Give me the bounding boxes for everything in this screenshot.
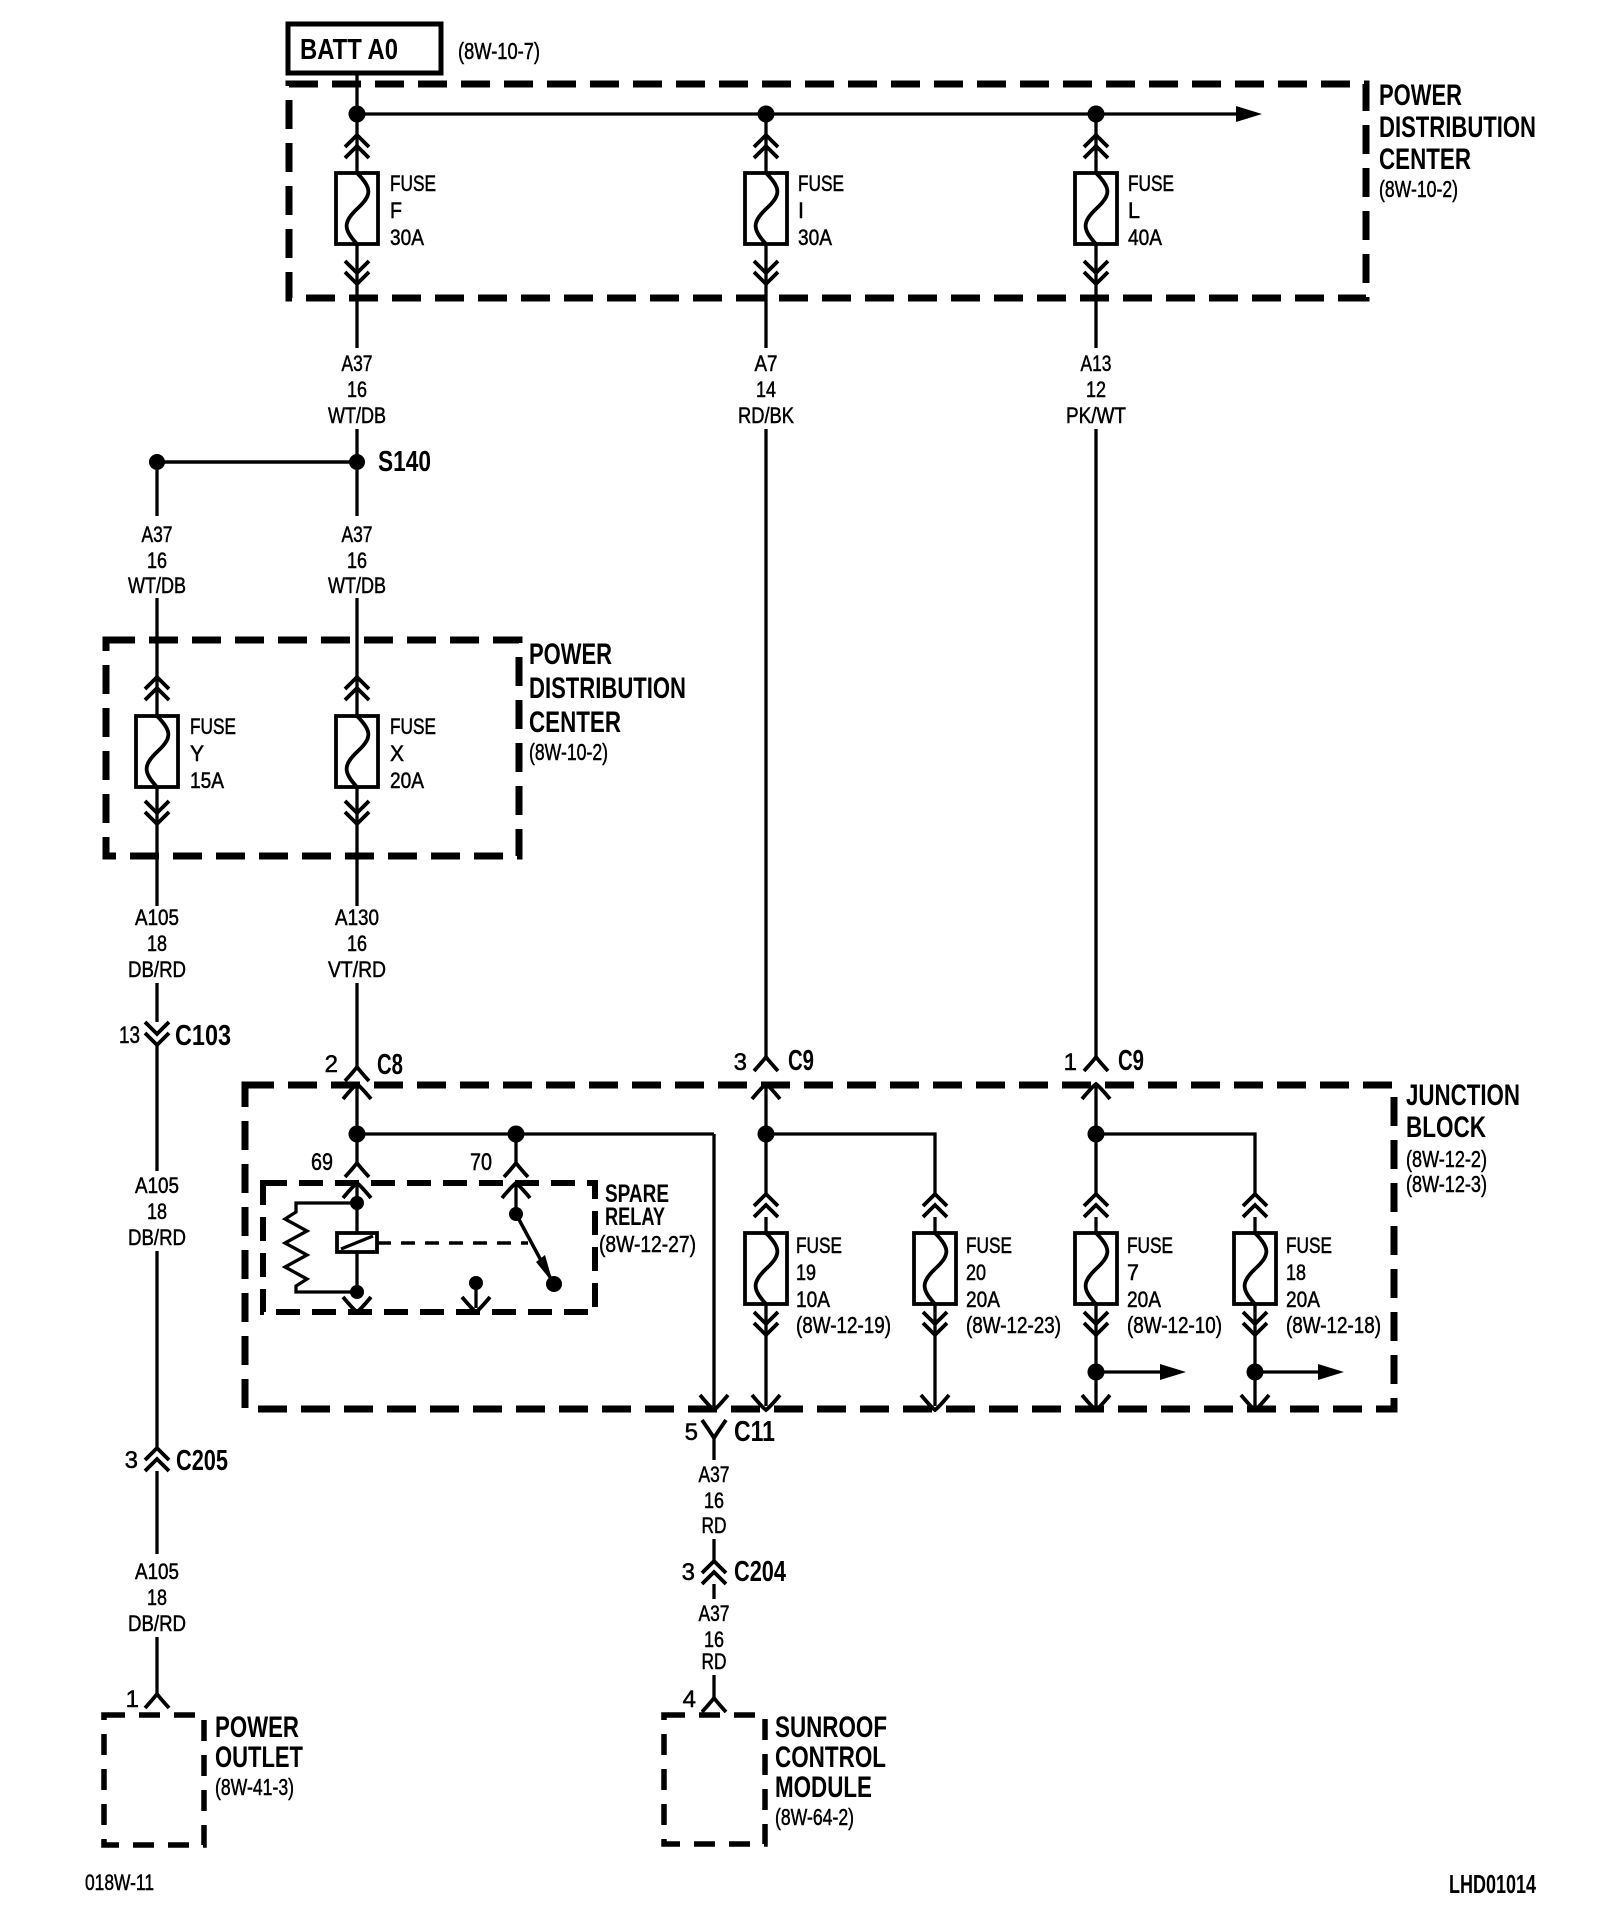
svg-text:CENTER: CENTER (1379, 143, 1471, 176)
fuse 20 20A (914, 1233, 956, 1304)
connector C11 socket half (702, 1420, 726, 1438)
svg-text:A13: A13 (1081, 351, 1112, 376)
node dot fuse 19/20 tap (758, 1126, 775, 1143)
svg-text:20A: 20A (390, 768, 424, 793)
svg-text:20A: 20A (966, 1287, 1000, 1312)
connector chevrons above fuse F (345, 135, 369, 158)
wire fuse L output (1094, 244, 1097, 348)
wire into fuse X (355, 598, 358, 716)
fuse 18 value label (1286, 1233, 1381, 1338)
wire into fuse 18 (1253, 1217, 1256, 1233)
relay pin ground arrow (343, 1297, 371, 1312)
wire label A37 16 WT/DB (right branch) (328, 522, 386, 598)
splice S140 dot (349, 454, 365, 470)
fuse I value label (798, 171, 844, 250)
relay switch pivot dot (509, 1207, 523, 1221)
svg-text:C103: C103 (175, 1020, 231, 1052)
junction block dashed box (245, 1085, 1394, 1409)
wire bus to fuse F (355, 114, 358, 173)
wire exit arrow to C11 (700, 1395, 728, 1410)
connector chevrons below fuse Y (145, 801, 169, 824)
svg-text:7: 7 (1127, 1260, 1139, 1285)
svg-text:(8W-12-10): (8W-12-10) (1127, 1312, 1222, 1338)
svg-text:(8W-10-7): (8W-10-7) (458, 38, 540, 64)
svg-text:PK/WT: PK/WT (1066, 403, 1126, 428)
svg-text:DISTRIBUTION: DISTRIBUTION (529, 672, 686, 705)
relay unused pin wire (474, 1283, 477, 1308)
svg-text:OUTLET: OUTLET (215, 1741, 303, 1774)
node dot at fuse L tap (1088, 106, 1105, 123)
svg-text:69: 69 (311, 1149, 333, 1176)
svg-text:18: 18 (147, 1585, 167, 1610)
node dot fuse 7/18 tap (1088, 1126, 1105, 1143)
connector chevrons above fuse Y (145, 677, 169, 700)
svg-text:(8W-12-18): (8W-12-18) (1286, 1312, 1381, 1338)
svg-text:DB/RD: DB/RD (128, 1611, 186, 1636)
wire to relay pin 70 (514, 1134, 517, 1163)
connector chevrons below fuse 18 (1243, 1312, 1267, 1335)
svg-text:LHD01014: LHD01014 (1449, 1869, 1536, 1899)
svg-text:S140: S140 (378, 446, 431, 478)
wire tap to fuse 18 (1096, 1134, 1255, 1194)
relay unused pin arrow (462, 1297, 490, 1312)
svg-text:CONTROL: CONTROL (775, 1741, 886, 1774)
wire C9 pin 1 to fuse 7 (1094, 1084, 1097, 1194)
spare relay title (599, 1180, 696, 1257)
splice S140 left dot (149, 454, 165, 470)
connector chevrons above fuse 20 (923, 1194, 947, 1217)
svg-text:16: 16 (347, 548, 367, 573)
svg-text:18: 18 (1286, 1260, 1306, 1285)
connector chevrons below fuse 20 (923, 1312, 947, 1335)
svg-text:C8: C8 (377, 1049, 403, 1081)
wire into sunroof control module (712, 1675, 715, 1698)
bus wire node A0 (357, 112, 1238, 115)
wire label A105 18 DB/RD (mid) (128, 1173, 186, 1250)
connector chevrons above fuse X (345, 677, 369, 700)
connector C8 socket half (345, 1067, 369, 1081)
svg-text:RD: RD (702, 1649, 727, 1674)
svg-text:POWER: POWER (215, 1711, 299, 1744)
svg-text:A37: A37 (142, 522, 173, 547)
relay coil box (337, 1233, 377, 1252)
connector chevrons above fuse 19 (754, 1194, 778, 1217)
wire into fuse Y (155, 598, 158, 716)
wire fuse I output (764, 244, 767, 348)
connector chevrons below fuse L (1084, 261, 1108, 284)
wire A7 to C9 pin 3 (764, 429, 767, 1057)
wire bus to fuse L (1094, 114, 1097, 173)
relay coil to switch dashed link (377, 1241, 528, 1245)
relay coil bottom node dot (350, 1285, 364, 1299)
svg-text:MODULE: MODULE (775, 1771, 872, 1804)
svg-text:(8W-12-3): (8W-12-3) (1406, 1171, 1487, 1197)
svg-text:FUSE: FUSE (966, 1233, 1012, 1258)
svg-text:14: 14 (756, 377, 776, 402)
wire fuse F output (355, 244, 358, 348)
relay pin 70 blade half (502, 1183, 530, 1198)
svg-text:A37: A37 (342, 522, 373, 547)
relay switch blade arrowhead (536, 1255, 553, 1283)
connector chevrons above fuse 7 (1084, 1194, 1108, 1217)
wire label A13 12 PK/WT (1066, 351, 1126, 428)
svg-text:A37: A37 (342, 351, 373, 376)
power outlet dashed box (104, 1715, 204, 1845)
svg-text:POWER: POWER (529, 638, 612, 671)
wire label A7 14 RD/BK (738, 351, 794, 428)
connector chevrons above fuse L (1084, 135, 1108, 158)
svg-text:70: 70 (470, 1149, 492, 1176)
connector C9 pin 1 blade half (1082, 1084, 1110, 1099)
wire label A130 16 VT/RD (328, 905, 386, 982)
wire label A37 16 WT/DB (fuse F output) (328, 351, 386, 428)
svg-text:12: 12 (1086, 377, 1106, 402)
svg-text:C9: C9 (788, 1045, 814, 1077)
fuse 19 value label (796, 1233, 891, 1338)
svg-text:(8W-41-3): (8W-41-3) (215, 1774, 294, 1800)
spare relay dashed box (263, 1183, 595, 1312)
power outlet title (215, 1711, 303, 1800)
svg-text:30A: 30A (798, 225, 832, 250)
svg-text:SUNROOF: SUNROOF (775, 1711, 887, 1744)
svg-text:20A: 20A (1127, 1287, 1161, 1312)
node dot relay bus pin 70 tap (508, 1126, 525, 1143)
svg-text:RD/BK: RD/BK (738, 403, 794, 428)
svg-text:4: 4 (683, 1686, 696, 1713)
power distribution center 2 title (529, 638, 686, 765)
svg-text:40A: 40A (1128, 225, 1162, 250)
wire label to C204 (712, 1539, 715, 1561)
wire A13 to C9 pin 1 (1094, 429, 1097, 1057)
fuse L 40A (1075, 173, 1117, 244)
wire S140 left branch (155, 470, 158, 516)
svg-text:16: 16 (704, 1488, 724, 1513)
svg-text:16: 16 (147, 548, 167, 573)
connector C8 pin half (343, 1084, 371, 1099)
svg-text:5: 5 (685, 1419, 698, 1446)
wire fuse X output (355, 787, 358, 906)
wire C205 down (155, 1471, 158, 1554)
svg-text:FUSE: FUSE (796, 1233, 842, 1258)
wire BATT A0 to bus (355, 73, 358, 114)
relay coil wire (355, 1183, 358, 1292)
svg-text:FUSE: FUSE (390, 171, 436, 196)
connector chevrons below fuse 19 (754, 1312, 778, 1335)
fuse I 30A (745, 173, 787, 244)
fuse 7 value label (1127, 1233, 1222, 1338)
svg-text:A105: A105 (135, 1559, 179, 1584)
wire fuse 18 output (1253, 1304, 1256, 1406)
sunroof control module title (775, 1711, 887, 1830)
svg-text:3: 3 (125, 1447, 138, 1474)
svg-text:3: 3 (734, 1049, 747, 1076)
svg-text:018W-11: 018W-11 (85, 1870, 154, 1895)
connector chevrons below fuse I (754, 261, 778, 284)
svg-text:A105: A105 (135, 1173, 179, 1198)
svg-text:C204: C204 (734, 1556, 786, 1588)
relay pin 69 blade half (343, 1183, 371, 1198)
svg-text:30A: 30A (390, 225, 424, 250)
svg-text:19: 19 (796, 1260, 816, 1285)
fuse 20 exit arrow (921, 1395, 949, 1410)
svg-text:C205: C205 (176, 1445, 228, 1477)
relay resistor (285, 1203, 357, 1292)
wire label A37 16 WT/DB (left branch) (128, 522, 186, 598)
fuse Y value label (190, 714, 236, 793)
wire label A105 18 DB/RD (lower) (128, 1559, 186, 1636)
svg-text:DISTRIBUTION: DISTRIBUTION (1379, 111, 1536, 144)
svg-text:3: 3 (682, 1559, 695, 1586)
wire into splice S140 (355, 429, 358, 455)
relay coil top node dot (350, 1196, 364, 1210)
wire C204 down (712, 1584, 715, 1599)
svg-text:2: 2 (325, 1051, 338, 1078)
svg-text:FUSE: FUSE (1127, 1233, 1173, 1258)
svg-text:Y: Y (190, 741, 204, 766)
wire C8 to relay bus (355, 1084, 358, 1134)
wire label A37 16 RD (C11) (699, 1462, 730, 1538)
fuse 20 value label (966, 1233, 1061, 1338)
fuse 18 20A (1234, 1233, 1276, 1304)
connector C204 symbol (702, 1561, 726, 1584)
fuse X value label (390, 714, 436, 793)
svg-text:DB/RD: DB/RD (128, 957, 186, 982)
wire fuse 7 output (1094, 1304, 1097, 1406)
svg-text:20: 20 (966, 1260, 986, 1285)
svg-text:WT/DB: WT/DB (328, 573, 386, 598)
wire to relay pin 69 (355, 1134, 358, 1163)
fuse L value label (1128, 171, 1174, 250)
svg-text:DB/RD: DB/RD (128, 1225, 186, 1250)
fuse Y 15A (136, 716, 178, 787)
svg-text:A37: A37 (699, 1601, 730, 1626)
relay switch common wire (514, 1183, 517, 1214)
fuse 18 branch arrow (1255, 1364, 1344, 1380)
node dot fuse 7 branch (1088, 1364, 1105, 1381)
svg-text:CENTER: CENTER (529, 706, 621, 739)
connector C9 pin 3 blade half (752, 1084, 780, 1099)
svg-text:16: 16 (347, 931, 367, 956)
relay switch blade (516, 1214, 551, 1279)
svg-text:A130: A130 (335, 905, 379, 930)
svg-text:(8W-12-2): (8W-12-2) (1406, 1146, 1487, 1172)
svg-text:BLOCK: BLOCK (1406, 1111, 1486, 1144)
connector C9 pin 1 socket half (1084, 1057, 1108, 1071)
wire into C8 (355, 983, 358, 1067)
svg-text:18: 18 (147, 1199, 167, 1224)
svg-text:C11: C11 (734, 1416, 775, 1448)
svg-text:F: F (390, 198, 402, 223)
svg-text:20A: 20A (1286, 1287, 1320, 1312)
svg-text:1: 1 (126, 1686, 139, 1713)
svg-text:A105: A105 (135, 905, 179, 930)
svg-text:WT/DB: WT/DB (328, 403, 386, 428)
connector chevrons below fuse 7 (1084, 1312, 1108, 1335)
relay pin 69 socket half (345, 1163, 369, 1177)
node dot relay bus left (349, 1126, 366, 1143)
bus arrowhead (1236, 106, 1262, 122)
wire splice S140 crossbar (157, 460, 357, 464)
connector chevrons below fuse X (345, 801, 369, 824)
connector chevrons above fuse I (754, 135, 778, 158)
BATT A0 feed box (288, 24, 441, 73)
wire S140 right branch (355, 470, 358, 516)
wire into C103 (155, 983, 158, 1022)
sunroof module pin 4 socket (702, 1698, 726, 1712)
node dot at fuse F tap (349, 106, 366, 123)
svg-text:(8W-10-2): (8W-10-2) (529, 739, 608, 765)
power outlet pin 1 socket (145, 1694, 169, 1708)
svg-text:FUSE: FUSE (390, 714, 436, 739)
sunroof control module dashed box (664, 1715, 765, 1844)
wire into fuse 19 (764, 1217, 767, 1233)
svg-text:18: 18 (147, 931, 167, 956)
svg-text:13: 13 (119, 1022, 140, 1049)
wire fuse 20 output (933, 1304, 936, 1406)
power distribution center 1 title (1379, 79, 1536, 202)
wire to C205 (155, 1251, 158, 1448)
svg-text:X: X (390, 741, 404, 766)
wire fuse 19 output (764, 1304, 767, 1406)
fuse F 30A (336, 173, 378, 244)
wire C11 to label (712, 1438, 715, 1460)
wire fuse Y output (155, 787, 158, 906)
wire C9 pin 3 to fuse 19 (764, 1084, 767, 1194)
wire into fuse 7 (1094, 1217, 1097, 1233)
relay unused pin dot (469, 1276, 483, 1290)
relay switch contact dot (546, 1276, 562, 1292)
fuse F value label (390, 171, 436, 250)
svg-text:(8W-64-2): (8W-64-2) (775, 1804, 854, 1830)
fuse 19 10A (745, 1233, 787, 1304)
svg-text:POWER: POWER (1379, 79, 1462, 112)
fuse 18 exit arrow (1241, 1395, 1269, 1410)
svg-text:FUSE: FUSE (190, 714, 236, 739)
fuse 7 exit arrow (1082, 1395, 1110, 1410)
wire into fuse 20 (933, 1217, 936, 1233)
connector chevrons above fuse 18 (1243, 1194, 1267, 1217)
wire into power outlet (155, 1637, 158, 1694)
svg-text:RELAY: RELAY (605, 1203, 665, 1231)
svg-text:C9: C9 (1118, 1045, 1144, 1077)
svg-text:I: I (798, 198, 804, 223)
wire bus to fuse I (764, 114, 767, 173)
connector C103 symbol (145, 1022, 169, 1045)
fuse 7 20A (1075, 1233, 1117, 1304)
svg-text:FUSE: FUSE (798, 171, 844, 196)
svg-text:1: 1 (1064, 1049, 1077, 1076)
node dot at fuse I tap (758, 106, 775, 123)
connector C9 pin 3 socket half (754, 1057, 778, 1071)
svg-text:(8W-10-2): (8W-10-2) (1379, 176, 1458, 202)
svg-text:VT/RD: VT/RD (328, 957, 386, 982)
fuse 7 branch arrow (1096, 1364, 1186, 1380)
svg-text:FUSE: FUSE (1286, 1233, 1332, 1258)
svg-text:WT/DB: WT/DB (128, 573, 186, 598)
svg-text:BATT A0: BATT A0 (300, 34, 398, 66)
wire label A37 16 RD (C204) (699, 1601, 730, 1674)
power distribution center 1 dashed box (289, 84, 1366, 298)
svg-text:A37: A37 (699, 1462, 730, 1487)
wire label A105 18 DB/RD (128, 905, 186, 982)
wire relay bus down to C11 (712, 1134, 715, 1406)
svg-text:10A: 10A (796, 1287, 830, 1312)
fuse X 20A (336, 716, 378, 787)
node dot fuse 18 branch (1247, 1364, 1264, 1381)
svg-text:A7: A7 (755, 351, 778, 376)
svg-text:L: L (1128, 198, 1140, 223)
svg-text:16: 16 (347, 377, 367, 402)
wire C103 to label (155, 1044, 158, 1171)
connector C205 symbol (145, 1448, 169, 1471)
svg-text:(8W-12-23): (8W-12-23) (966, 1312, 1061, 1338)
connector chevrons below fuse F (345, 261, 369, 284)
fuse 19 exit arrow at C11 (752, 1395, 780, 1410)
wire tap to fuse 20 (766, 1134, 935, 1194)
svg-text:(8W-12-27): (8W-12-27) (599, 1231, 696, 1257)
svg-text:JUNCTION: JUNCTION (1406, 1079, 1520, 1112)
svg-text:(8W-12-19): (8W-12-19) (796, 1312, 891, 1338)
relay pin 70 socket half (504, 1163, 528, 1177)
svg-text:15A: 15A (190, 768, 224, 793)
svg-text:RD: RD (702, 1513, 727, 1538)
power distribution center 2 dashed box (106, 640, 519, 856)
relay bus wire (357, 1132, 714, 1135)
junction block title (1406, 1079, 1520, 1197)
svg-text:FUSE: FUSE (1128, 171, 1174, 196)
